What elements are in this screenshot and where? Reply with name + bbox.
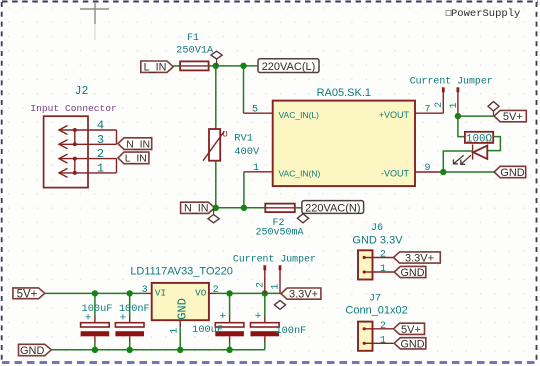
junction RV1 bottom <box>213 205 219 211</box>
dangling diamond at 220VAC(N) <box>297 214 308 223</box>
wire VO rail <box>216 292 281 294</box>
jumper JP1 pin 1 <box>449 87 460 116</box>
svg-text:100uF: 100uF <box>82 303 113 315</box>
page origin cross marker <box>80 3 109 40</box>
capacitor C2 100nF <box>115 293 144 349</box>
LED emission arrows <box>454 155 472 164</box>
wire to GND label right <box>443 171 494 173</box>
svg-text:250v50mA: 250v50mA <box>255 228 303 239</box>
svg-text:2: 2 <box>97 147 104 161</box>
svg-text:9: 9 <box>424 163 430 174</box>
wire label to fuse <box>173 65 180 67</box>
svg-text:U: U <box>223 130 228 140</box>
svg-text:J7: J7 <box>369 294 381 305</box>
svg-text:GND: GND <box>401 267 425 279</box>
fuse F1 body <box>180 61 209 70</box>
power label 3.3V+ bottom <box>281 288 321 301</box>
sheet name PowerSupply <box>446 8 520 20</box>
svg-text:1: 1 <box>380 264 386 275</box>
connector J7 body <box>358 322 373 351</box>
svg-text:LD1117AV33_TO220: LD1117AV33_TO220 <box>130 265 233 277</box>
svg-text:L_IN: L_IN <box>144 62 167 74</box>
power label 5V+ at J7 <box>394 323 425 336</box>
svg-text:GND: GND <box>500 167 525 179</box>
svg-text:1: 1 <box>380 335 386 346</box>
net label L_IN at J2 <box>118 152 149 165</box>
fuse F2 body <box>265 204 295 213</box>
J6 pin 2 <box>363 250 394 261</box>
wire F2 to 220VAC(N) <box>295 207 302 209</box>
svg-text:L_IN: L_IN <box>125 153 147 165</box>
junction regulator GND bottom <box>177 347 183 353</box>
module pin 1 <box>244 163 273 174</box>
svg-text:+: + <box>219 311 226 323</box>
svg-text:GND: GND <box>20 345 45 357</box>
junction cap A top <box>92 290 98 296</box>
svg-text:+VOUT: +VOUT <box>379 110 410 120</box>
svg-text:VAC_IN(N): VAC_IN(N) <box>279 169 321 179</box>
svg-text:100nF: 100nF <box>119 303 150 315</box>
junction cap B top <box>127 290 133 296</box>
svg-text:Current Jumper: Current Jumper <box>410 76 493 87</box>
wire fuse to 220VAC(L) <box>209 65 258 67</box>
svg-text:GND: GND <box>401 338 425 350</box>
svg-text:2: 2 <box>380 321 386 332</box>
wire down to module pin 5 <box>243 66 245 113</box>
dangling diamond at 5V+ <box>488 102 499 117</box>
J2 pin 3 <box>59 133 117 149</box>
junction cap A bottom <box>92 347 98 353</box>
svg-text:1: 1 <box>253 163 259 174</box>
junction cap B bottom <box>127 347 133 353</box>
dangling diamond at N_IN <box>208 209 219 223</box>
net label N_IN at J2 <box>118 138 152 151</box>
junction pin1 drop <box>241 205 247 211</box>
svg-text:VO: VO <box>195 287 207 298</box>
power label 5V+ right <box>494 110 526 123</box>
module RA05 body <box>273 101 415 187</box>
svg-text:+: + <box>255 311 262 323</box>
varistor RV1 body <box>203 129 228 161</box>
svg-text:Current Jumper: Current Jumper <box>233 253 316 264</box>
wire RV1 to bottom rail <box>215 161 217 208</box>
net class label 220VAC(L) <box>258 59 319 73</box>
wire 5V rail <box>45 292 145 294</box>
wire tie pins 4-3 inner <box>74 130 76 144</box>
svg-text:400V: 400V <box>234 146 260 158</box>
svg-text:100nF: 100nF <box>275 325 306 337</box>
wire 5V node to resistor <box>458 116 465 137</box>
svg-text:1: 1 <box>169 328 180 334</box>
capacitor C4 100nF <box>251 293 280 349</box>
resistor R1 body <box>465 132 493 146</box>
power label GND left <box>19 344 52 357</box>
net label N_IN source <box>181 202 215 214</box>
module pin 7 <box>415 105 443 116</box>
svg-text:5V+: 5V+ <box>401 324 421 336</box>
dangling diamond at 3.3V+ <box>274 300 285 309</box>
svg-text:1: 1 <box>449 102 460 108</box>
wire tie pins 2-1 outer <box>116 159 118 173</box>
junction 5V node <box>455 113 461 119</box>
capacitor C1 100uF <box>81 293 110 349</box>
wire to 5V+ label <box>458 115 494 117</box>
regulator pin 2 VO <box>195 285 218 298</box>
jumper JP2 pin 2 <box>256 265 267 293</box>
module pin 9 <box>415 163 443 174</box>
wire GND rail <box>51 349 265 351</box>
svg-text:5V+: 5V+ <box>17 288 38 300</box>
junction GND node <box>440 169 446 175</box>
svg-text:7: 7 <box>424 105 430 116</box>
net label L_IN source <box>141 61 173 74</box>
svg-text:100uF: 100uF <box>192 324 223 336</box>
junction cap D top <box>262 290 268 296</box>
svg-text:N_IN: N_IN <box>126 138 150 150</box>
power label 5V+ left <box>13 288 45 301</box>
svg-text:3.3V+: 3.3V+ <box>405 253 434 265</box>
regulator pin 1 GND <box>169 320 180 350</box>
svg-text:J6: J6 <box>371 223 383 234</box>
module pin 5 <box>244 105 273 116</box>
J2 pin 2 <box>59 147 117 163</box>
svg-text:Input Connector: Input Connector <box>30 103 116 114</box>
junction cap C top <box>226 290 232 296</box>
svg-text:2: 2 <box>434 102 445 108</box>
svg-text:J2: J2 <box>75 85 89 98</box>
svg-text:F1: F1 <box>187 33 199 44</box>
wire down to RV1 <box>215 66 217 129</box>
J7 pin 1 <box>363 335 394 346</box>
svg-text:PowerSupply: PowerSupply <box>451 8 520 20</box>
svg-text:Conn_01x02: Conn_01x02 <box>345 305 407 317</box>
svg-text:220VAC(L): 220VAC(L) <box>262 61 316 73</box>
wire resistor to LED anode <box>488 137 501 151</box>
J2 pin 1 <box>59 161 117 177</box>
regulator pin 3 VI <box>142 285 166 298</box>
jumper JP1 pin 2 <box>434 87 445 113</box>
svg-text:VAC_IN(L): VAC_IN(L) <box>279 110 320 120</box>
svg-text:250V1A: 250V1A <box>176 45 214 57</box>
capacitor C3 100uF <box>215 293 244 349</box>
svg-text:2: 2 <box>213 285 219 296</box>
svg-text:2: 2 <box>380 250 386 261</box>
J6 pin 1 <box>363 264 394 275</box>
svg-text:3.3V+: 3.3V+ <box>289 289 318 301</box>
svg-text:5V+: 5V+ <box>503 111 523 123</box>
svg-text:RA05.SK.1: RA05.SK.1 <box>317 87 371 99</box>
power label GND at J7 <box>394 338 426 351</box>
dangling diamond at F1 node <box>211 51 222 66</box>
J2 pin 4 <box>59 119 117 135</box>
LED D1 <box>473 145 488 160</box>
svg-text:VI: VI <box>155 287 166 298</box>
svg-text:3: 3 <box>97 133 104 147</box>
svg-text:1: 1 <box>271 284 282 290</box>
wire tie pins 4-3 outer <box>116 130 118 144</box>
junction at F1 output <box>213 63 219 69</box>
svg-text:RV1: RV1 <box>234 133 253 145</box>
power label GND at J6 <box>394 266 426 279</box>
connector J2 body <box>44 116 88 187</box>
power label 3.3V+ at J6 <box>394 252 441 265</box>
svg-text:220VAC(N): 220VAC(N) <box>305 202 360 214</box>
jumper JP2 pin 1 <box>271 265 282 293</box>
power label GND right <box>494 166 526 179</box>
svg-text:N_IN: N_IN <box>184 203 209 215</box>
junction cap C bottom <box>226 347 232 353</box>
net class label 220VAC(N) <box>302 201 364 215</box>
svg-text:4: 4 <box>97 119 104 133</box>
junction at pin5 drop <box>240 63 246 69</box>
wire module pin1 drop <box>243 172 245 208</box>
wire LED cathode to GND rail <box>443 151 472 172</box>
svg-text:GND 3.3V: GND 3.3V <box>352 235 403 247</box>
wire N rail <box>215 207 266 209</box>
svg-text:100Ω: 100Ω <box>466 134 492 146</box>
regulator U2 body <box>152 283 209 320</box>
J7 pin 2 <box>363 321 394 332</box>
connector J6 body <box>358 250 373 279</box>
svg-text:1: 1 <box>97 161 104 175</box>
svg-text:5: 5 <box>252 105 258 116</box>
svg-text:GND: GND <box>175 298 189 320</box>
svg-text:3: 3 <box>142 285 148 296</box>
svg-text:-VOUT: -VOUT <box>381 169 410 179</box>
wire tie pins 2-1 inner <box>74 159 76 173</box>
svg-text:2: 2 <box>256 282 267 288</box>
